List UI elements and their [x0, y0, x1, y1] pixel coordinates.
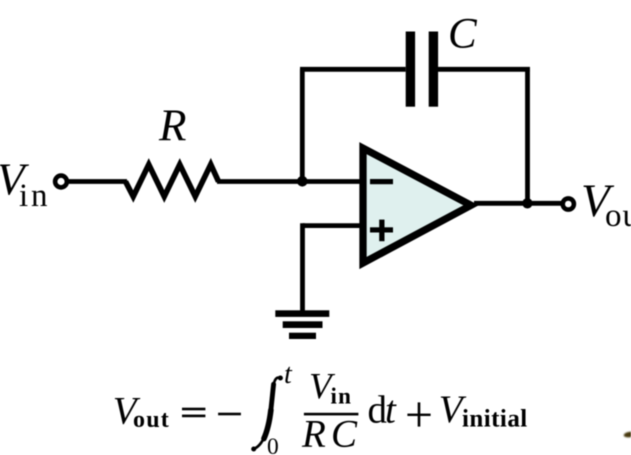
svg-text:out: out [605, 198, 631, 234]
svg-text:R: R [301, 413, 326, 455]
svg-text:C: C [448, 10, 478, 57]
svg-text:t: t [385, 389, 397, 432]
svg-text:initial: initial [462, 406, 528, 433]
svg-text:in: in [19, 178, 50, 214]
svg-text:out: out [133, 407, 170, 433]
svg-text:in: in [331, 384, 353, 409]
svg-text:t: t [284, 359, 293, 390]
svg-text:0: 0 [267, 434, 279, 455]
svg-text:R: R [158, 101, 187, 151]
svg-text:C: C [331, 413, 358, 455]
